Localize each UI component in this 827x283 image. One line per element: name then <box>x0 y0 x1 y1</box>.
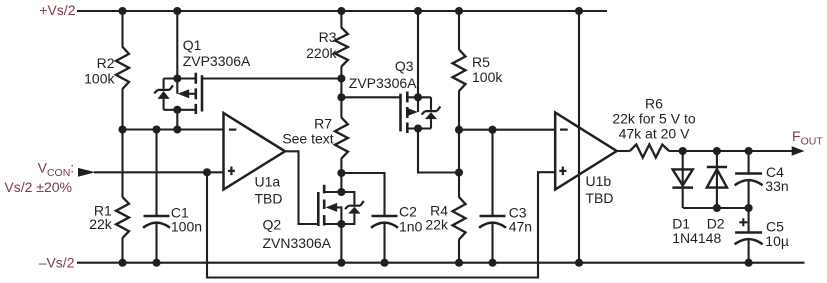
junction dots bottom rail <box>118 259 752 267</box>
svg-text:R5: R5 <box>472 54 490 70</box>
transistor Q1 P-MOSFET <box>154 73 202 114</box>
wire U1b output to R6 <box>617 150 630 152</box>
capacitor C3 <box>479 216 506 228</box>
svg-text:R2: R2 <box>97 55 115 71</box>
svg-text:220k: 220k <box>306 45 337 61</box>
wire top rail +Vs/2 <box>77 10 607 12</box>
svg-text:1n0: 1n0 <box>399 218 423 234</box>
wire U1a output to Q2 gate <box>285 151 318 224</box>
junction dots U1a input node <box>118 125 211 176</box>
resistor R6 <box>630 145 669 158</box>
svg-text:ZVP3306A: ZVP3306A <box>349 75 417 91</box>
svg-text:22k: 22k <box>425 217 449 233</box>
svg-text:Q1: Q1 <box>183 37 202 53</box>
VCON input arrow <box>78 168 95 177</box>
junction dots Q1 <box>173 74 181 113</box>
wire feedback loop from U1a + input to U1b + input <box>207 172 555 277</box>
wire C4 branch <box>748 151 750 208</box>
wire diode bottom connector <box>683 207 749 209</box>
diode D2 <box>707 167 727 188</box>
wire C3 column <box>491 130 493 263</box>
svg-text:Q2: Q2 <box>263 217 282 233</box>
svg-text:100n: 100n <box>171 219 202 235</box>
resistor R5 <box>453 50 466 92</box>
transistor Q3 P-MOSFET <box>401 92 441 134</box>
resistor R4 <box>453 197 466 240</box>
plus sign of C5 <box>739 218 747 226</box>
resistor R2 <box>116 47 129 89</box>
wire U1b inverting input row <box>459 129 555 131</box>
svg-text:See text: See text <box>282 130 333 146</box>
wire R5/R4 column <box>458 11 460 263</box>
svg-text:47n: 47n <box>509 219 532 235</box>
resistor R1 <box>116 197 129 238</box>
wire R6 to FOUT arrow <box>669 150 793 152</box>
capacitor C5 <box>735 233 763 245</box>
wire node B to Q3 gate <box>341 96 400 98</box>
svg-text:R6: R6 <box>645 96 663 112</box>
svg-text:10µ: 10µ <box>765 233 789 249</box>
svg-text:1N4148: 1N4148 <box>672 230 721 246</box>
svg-text:C2: C2 <box>399 204 417 220</box>
wire Q1 column <box>176 11 178 130</box>
wire R3/R7 column <box>340 11 342 263</box>
junction dots R5/R4 column <box>455 126 497 177</box>
wire R2/R1 column <box>121 11 123 263</box>
svg-text:22k: 22k <box>89 216 113 232</box>
FOUT output arrow <box>792 146 805 155</box>
wire U1b supply line <box>578 11 580 263</box>
svg-text:–Vs/2: –Vs/2 <box>39 255 75 271</box>
svg-text:U1b: U1b <box>586 173 612 189</box>
transistor Q2 N-MOSFET <box>318 185 364 226</box>
wire VCON input to U1a + input <box>94 171 224 173</box>
resistor R7 <box>335 118 348 159</box>
op-amp U1a <box>224 113 286 190</box>
svg-text:TBD: TBD <box>255 190 283 206</box>
svg-text:Q3: Q3 <box>395 58 414 74</box>
svg-text:R7: R7 <box>314 115 332 131</box>
capacitor C2 <box>371 216 398 228</box>
capacitor C1 <box>143 216 170 228</box>
junction dots Q3 <box>414 93 422 132</box>
svg-text:47k at 20 V: 47k at 20 V <box>619 126 690 142</box>
wire D2 branch <box>716 151 718 208</box>
svg-text:ZVN3306A: ZVN3306A <box>263 235 332 251</box>
svg-text:Vs/2 ±20%: Vs/2 ±20% <box>4 179 72 195</box>
svg-text:ZVP3306A: ZVP3306A <box>183 53 251 69</box>
svg-text:R3: R3 <box>319 29 337 45</box>
junction dots output network <box>679 147 753 212</box>
wire R7 bottom node to C2 <box>341 173 384 263</box>
svg-text:100k: 100k <box>84 71 115 87</box>
svg-text:U1a: U1a <box>255 174 281 190</box>
op-amp U1b <box>555 113 617 190</box>
wire U1a inverting input row <box>123 128 224 130</box>
capacitor C4 <box>735 174 763 186</box>
resistor R3 <box>335 28 348 67</box>
wire C5 branch <box>748 208 750 263</box>
svg-text:100k: 100k <box>472 69 503 85</box>
wire Q3 column <box>418 11 459 173</box>
junction dots R3/R7 column <box>337 74 345 228</box>
wire C1 column <box>155 130 157 263</box>
wire Q1 gate to R3/R7 node <box>202 77 341 79</box>
junction dots top rail <box>118 7 583 15</box>
svg-text:TBD: TBD <box>586 190 614 206</box>
svg-text:22k for 5 V to: 22k for 5 V to <box>612 111 695 127</box>
svg-text:33n: 33n <box>765 178 788 194</box>
svg-text:+Vs/2: +Vs/2 <box>39 2 75 18</box>
wire D1 branch <box>682 151 684 208</box>
diode D1 <box>672 169 693 187</box>
wire bottom rail -Vs/2 <box>77 262 805 264</box>
